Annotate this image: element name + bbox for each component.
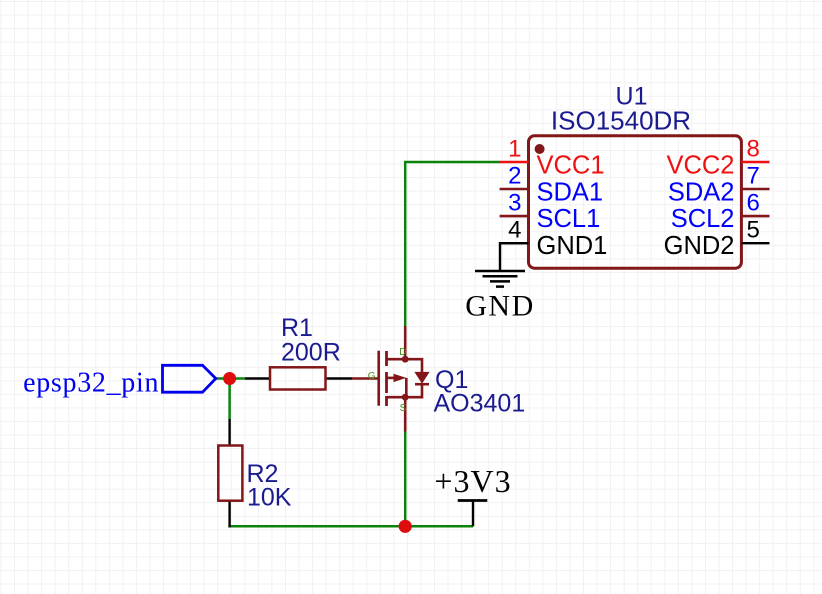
- svg-text:VCC2: VCC2: [666, 152, 734, 180]
- svg-text:SDA1: SDA1: [537, 178, 604, 206]
- svg-text:5: 5: [747, 217, 760, 244]
- svg-text:8: 8: [747, 136, 760, 163]
- svg-text:GND1: GND1: [537, 232, 608, 260]
- svg-text:G: G: [368, 371, 376, 382]
- svg-text:epsp32_pin: epsp32_pin: [23, 367, 159, 398]
- svg-text:GND2: GND2: [664, 232, 735, 260]
- svg-text:SCL1: SCL1: [537, 205, 601, 233]
- svg-text:2: 2: [508, 163, 521, 190]
- svg-text:+3V3: +3V3: [434, 463, 511, 499]
- svg-text:S: S: [400, 403, 407, 414]
- svg-text:GND: GND: [465, 290, 535, 323]
- svg-text:4: 4: [508, 217, 521, 244]
- svg-text:7: 7: [747, 163, 760, 190]
- svg-text:200R: 200R: [281, 339, 341, 367]
- svg-text:1: 1: [508, 136, 521, 163]
- svg-text:6: 6: [747, 190, 760, 217]
- svg-text:10K: 10K: [247, 484, 292, 512]
- svg-text:SDA2: SDA2: [668, 178, 735, 206]
- svg-text:3: 3: [508, 190, 521, 217]
- svg-text:D: D: [399, 347, 406, 358]
- svg-text:ISO1540DR: ISO1540DR: [551, 106, 691, 136]
- svg-text:SCL2: SCL2: [671, 205, 735, 233]
- svg-text:VCC1: VCC1: [537, 152, 605, 180]
- svg-text:AO3401: AO3401: [434, 390, 526, 418]
